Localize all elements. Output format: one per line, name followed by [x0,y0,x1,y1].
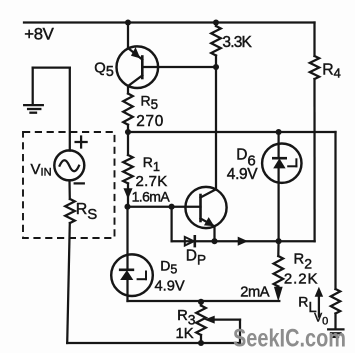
svg-text:2mA: 2mA [240,284,270,300]
svg-text:+8V: +8V [24,24,54,43]
svg-text:1K: 1K [176,326,194,342]
svg-text:SeekIC.com: SeekIC.com [233,326,346,353]
svg-text:3.3K: 3.3K [222,34,252,51]
svg-text:4.9V: 4.9V [155,278,185,294]
svg-text:2.7K: 2.7K [136,173,168,190]
svg-text:270: 270 [136,113,164,130]
svg-text:4.9V: 4.9V [227,166,258,183]
svg-text:1.6mA: 1.6mA [132,189,171,205]
svg-text:2.2K: 2.2K [284,270,318,287]
